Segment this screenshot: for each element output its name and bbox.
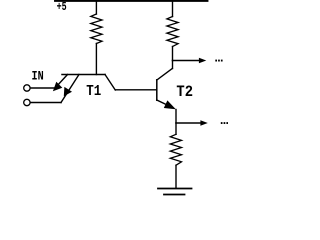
wire: input 2 to T1 emitter xyxy=(30,102,61,104)
resistor R3 (emitter resistor) xyxy=(170,134,181,165)
wire: resistor R3 bottom to ground xyxy=(175,165,177,188)
ellipsis dots (output 1 continues) xyxy=(215,60,222,62)
transistor T2 base bar xyxy=(156,80,158,100)
output arrow 1 (collector output) xyxy=(173,58,207,63)
wire: rail to resistor R2 top xyxy=(172,2,174,17)
+5 power rail xyxy=(55,0,208,2)
transistor T1 base bar (multi-emitter input transistor) xyxy=(62,74,105,76)
svg-text:T1: T1 xyxy=(86,84,101,100)
svg-text:T2: T2 xyxy=(176,83,193,101)
label +5 xyxy=(57,0,67,14)
label T1 xyxy=(86,84,101,100)
wire: resistor R2 bottom to output node xyxy=(172,47,174,61)
wire: T1 collector to T2 base xyxy=(115,89,156,91)
wire: output node to T2 collector xyxy=(172,61,174,69)
resistor R2 (T2 collector load) xyxy=(167,17,178,47)
wire: resistor R1 bottom to T1 base bar xyxy=(95,44,97,75)
ground symbol xyxy=(158,189,192,195)
svg-text:+5: +5 xyxy=(57,0,67,14)
T1 emitter 1 (diagonal with arrowhead, input 1) xyxy=(53,75,68,92)
ellipsis dots (output 2 continues) xyxy=(221,122,228,124)
wire: output node 2 to resistor R3 top xyxy=(175,123,177,134)
wire: T2 emitter down to output node 2 xyxy=(175,110,177,124)
wire: input 1 to T1 emitter xyxy=(30,87,55,89)
T1 collector diagonal xyxy=(105,75,115,91)
wire: rail to resistor R1 top xyxy=(95,2,97,14)
T2 emitter diagonal with arrow xyxy=(157,100,176,109)
resistor R1 (T1 base pull-up) xyxy=(91,14,102,44)
svg-text:IN: IN xyxy=(32,70,44,84)
label IN xyxy=(32,70,44,84)
input terminal circle 2 xyxy=(24,99,30,105)
T2 collector diagonal xyxy=(157,69,173,81)
label T2 xyxy=(176,83,193,101)
output arrow 2 (emitter output) xyxy=(176,120,208,125)
T1 emitter 2 (diagonal with arrowhead, input 2) xyxy=(61,75,79,103)
input terminal circle 1 xyxy=(24,85,30,91)
